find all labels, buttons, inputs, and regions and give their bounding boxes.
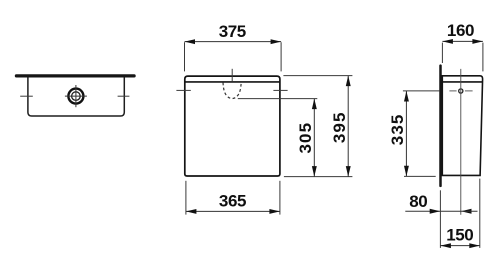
dimension 80 arrow pointing left (461, 209, 472, 214)
dimension 80 left arrow tail (405, 210, 440, 212)
dimension 335 arrow up (404, 91, 409, 102)
inlet vertical centreline (460, 69, 462, 215)
drain symbol inner circle (72, 92, 81, 101)
dimension 395 line (347, 76, 349, 177)
right tick (top view) (118, 95, 130, 97)
inlet horizontal centreline dash right (465, 90, 473, 92)
water inlet circle (459, 89, 463, 93)
dimension 365 arrow left (186, 209, 197, 214)
left tick (front view) (176, 89, 190, 91)
dimension 375 arrow right (271, 39, 282, 44)
left tick (top view) (20, 95, 33, 97)
wall bar (top view) (15, 74, 136, 77)
inlet horizontal centreline dash left (449, 90, 456, 92)
dimension 375 extension line right (280, 42, 282, 71)
dimension 80 arrow pointing right (430, 209, 441, 214)
centre tick on lid (front view) (231, 69, 233, 81)
dimension 365 line (186, 210, 280, 212)
lid bottom line (front view) (185, 81, 280, 83)
dimension 395 arrow up (346, 76, 351, 87)
cistern body outline (side view) (442, 76, 482, 176)
dimension 150 line (440, 245, 479, 247)
svg-text:335: 335 (388, 114, 407, 146)
dimension 80 middle segment (440, 210, 461, 212)
dimension 365 extension line right (279, 181, 281, 215)
dimension 305 top extension line (from button bottom) (238, 98, 317, 100)
dimension 160 extension line left (441, 43, 443, 63)
dimension 375 extension line left (184, 42, 186, 71)
dimension 365 extension line left (185, 181, 187, 215)
dimension 375 arrow left (185, 39, 196, 44)
wall bar (side view) (439, 66, 442, 186)
dimension 160 extension line right (482, 43, 484, 72)
dimension 150 extension line right (479, 179, 481, 248)
shared bottom extension line (body bottom) (284, 176, 353, 178)
svg-text:150: 150 (446, 225, 473, 244)
dimension 305 line (313, 99, 315, 177)
dimension 80 right arrow tail (461, 210, 478, 212)
drain symbol horizontal crosshair line (65, 95, 87, 97)
dimension 150 arrow left (440, 243, 451, 248)
cistern body outline (front view) (185, 76, 280, 176)
wall extension line (for 80 and 150) (439, 190, 441, 248)
dimension 335 arrow down (404, 166, 409, 177)
dimension 160 line (442, 40, 483, 42)
drain symbol vertical crosshair line (75, 85, 77, 107)
dimension 150 arrow right (469, 243, 480, 248)
right tick (front view) (273, 89, 287, 91)
dimension 305 arrow down (312, 166, 317, 177)
svg-text:80: 80 (409, 192, 427, 211)
dimension 335 line (405, 91, 407, 176)
svg-text:375: 375 (219, 22, 246, 41)
dimension 375 line (185, 41, 282, 43)
dimension 160 arrow right (472, 39, 483, 44)
svg-text:365: 365 (219, 192, 246, 211)
dimension 160 arrow left (442, 39, 453, 44)
svg-text:395: 395 (330, 111, 349, 143)
dimension 395 arrow down (346, 166, 351, 177)
dimension 335 top extension line (403, 90, 440, 92)
cistern body outline (top view) (28, 77, 124, 116)
svg-text:160: 160 (447, 21, 474, 40)
drain symbol outer circle (68, 89, 83, 104)
dimension 395 top extension line (from body top) (283, 75, 352, 77)
svg-text:305: 305 (296, 122, 315, 154)
dashed push-button recess (front view) (223, 82, 241, 98)
dimension 335 bottom extension line (404, 175, 436, 177)
dimension 305 arrow up (312, 99, 317, 110)
dimension 365 arrow right (269, 209, 280, 214)
lid bottom line (side view) (442, 81, 482, 83)
